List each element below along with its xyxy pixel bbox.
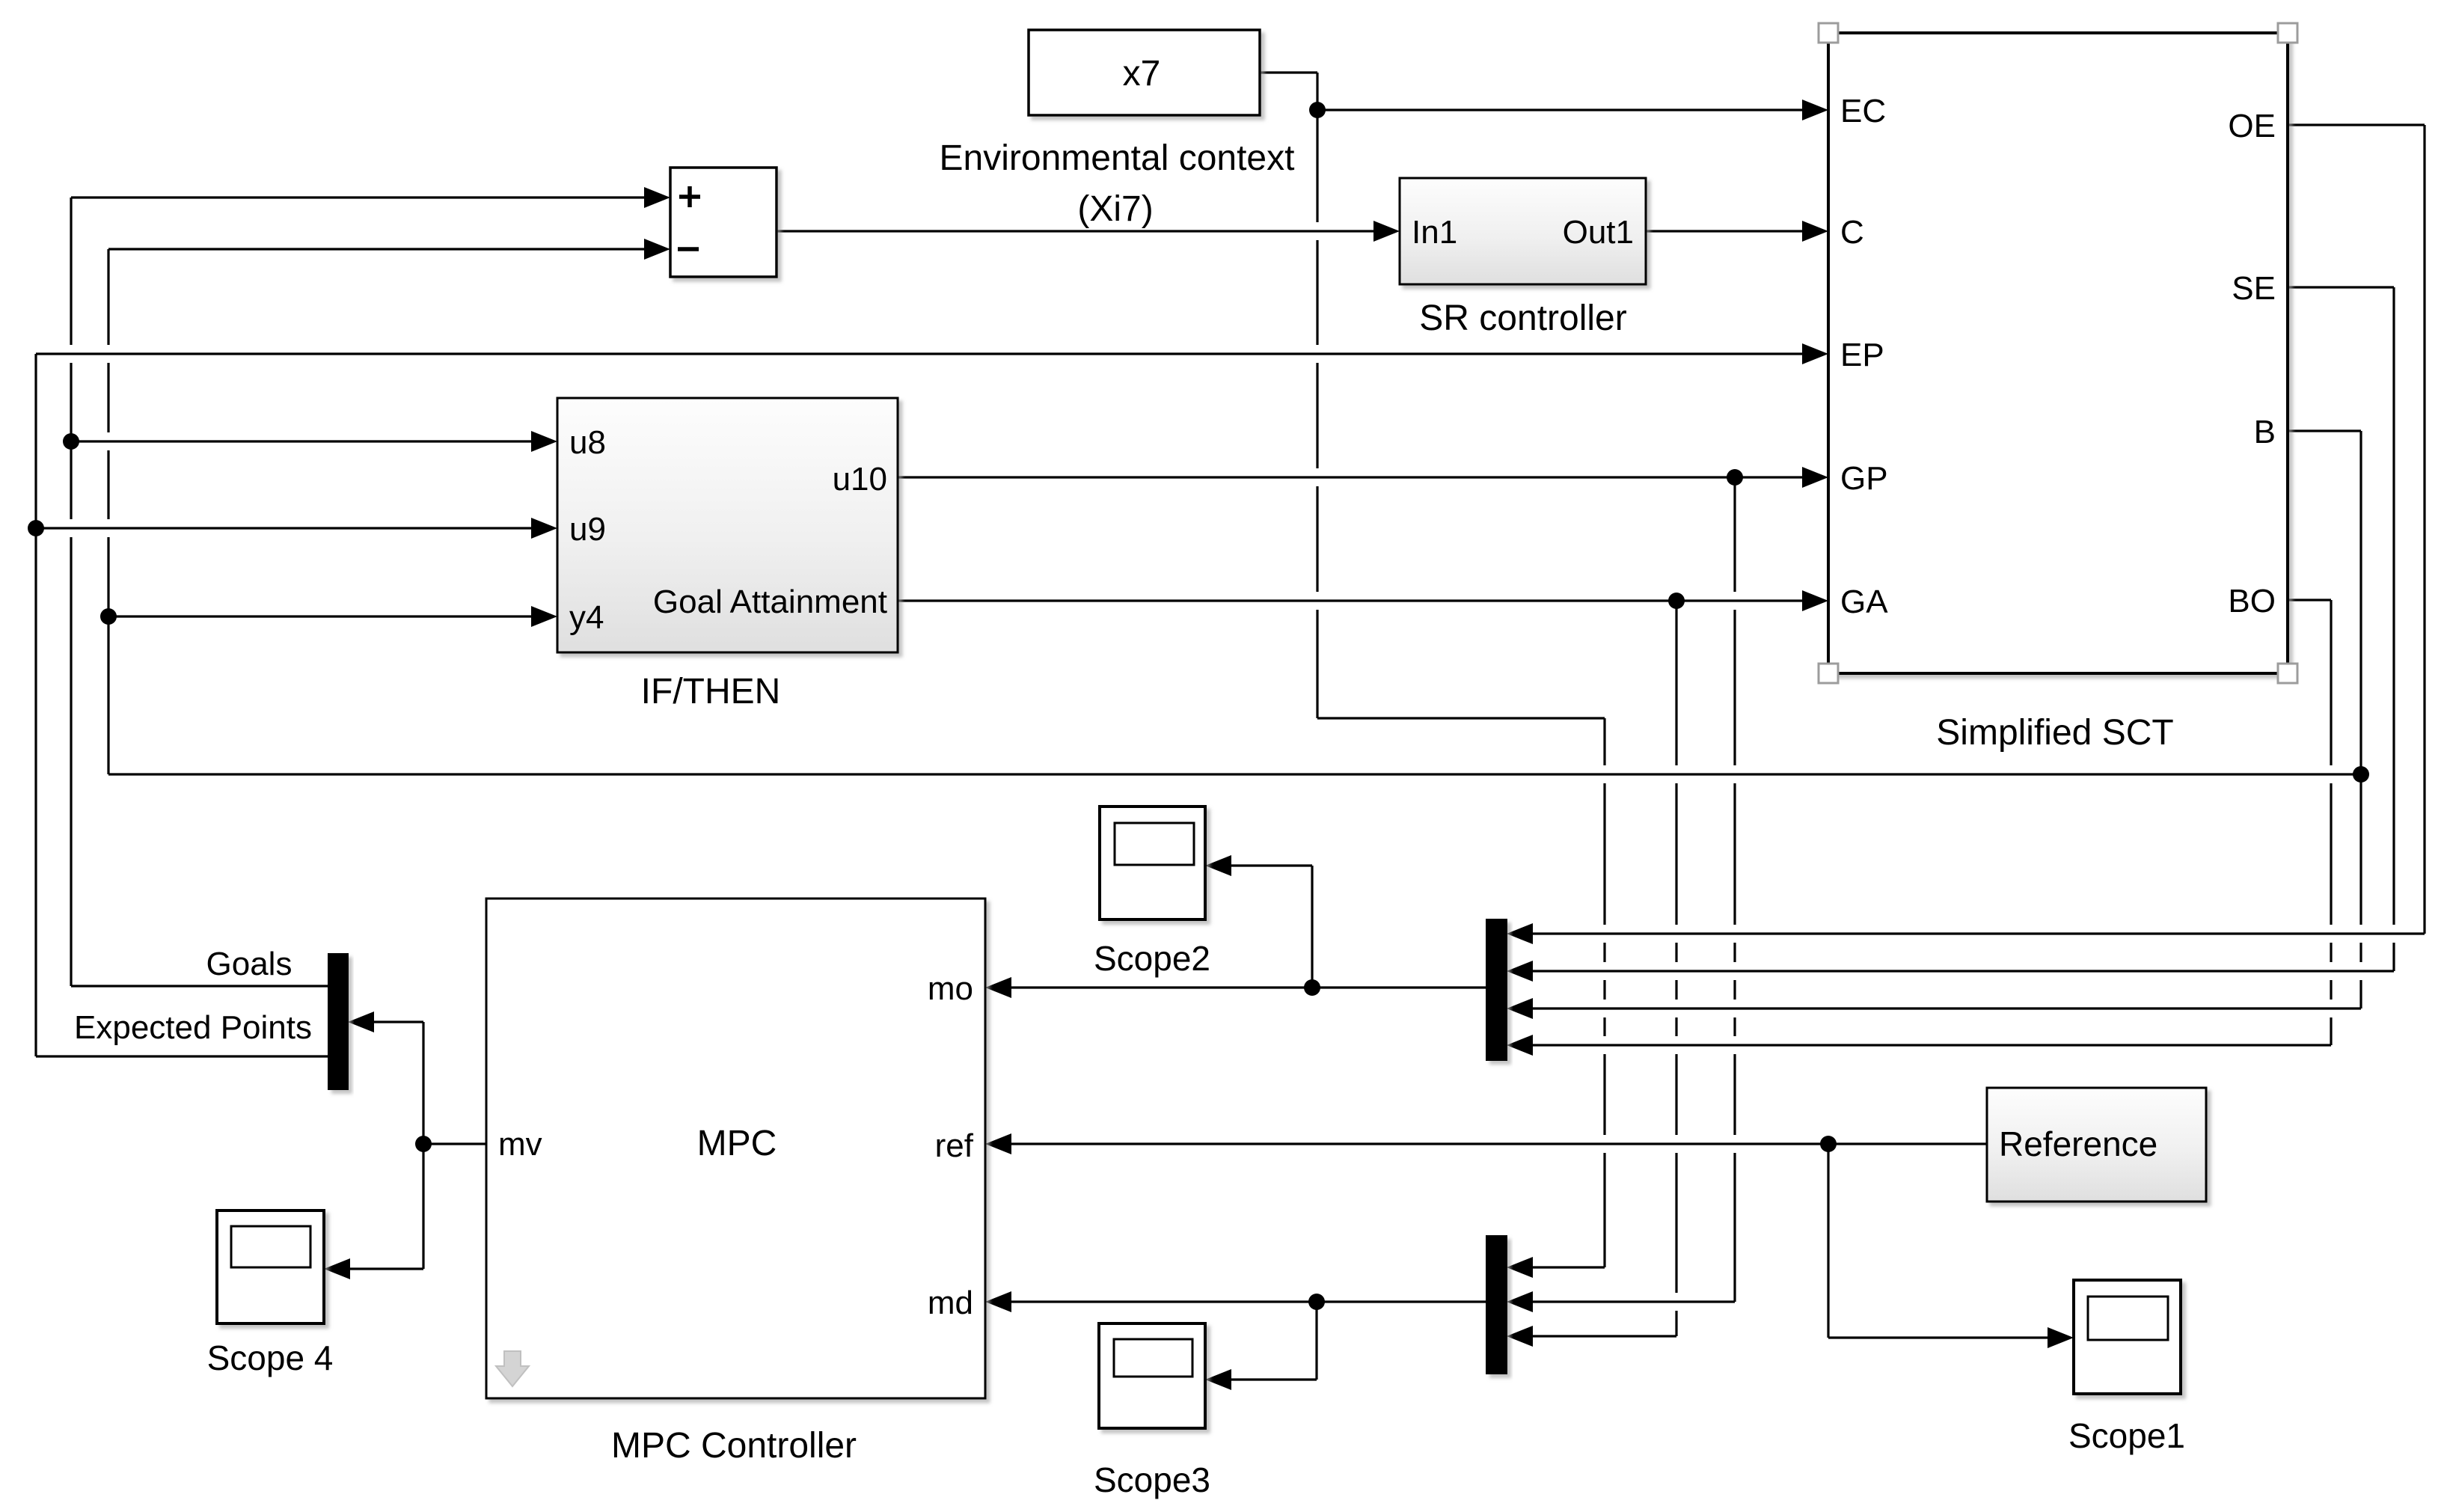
wire EP <box>36 352 1803 355</box>
arrow mux1 in2 <box>1507 961 1533 982</box>
sum plus sign <box>679 186 700 207</box>
wire to Scope1 <box>1828 1336 2048 1338</box>
wire SE vertical <box>2392 287 2395 971</box>
svg-text:BO: BO <box>2228 583 2276 619</box>
wire B vertical <box>2359 431 2362 1008</box>
wire OE vertical <box>2423 125 2425 934</box>
junction ref/Scope1 <box>1820 1136 1837 1152</box>
junction u8 tap <box>63 433 79 450</box>
arrow In1 <box>1373 221 1400 242</box>
svg-text:md: md <box>928 1285 973 1321</box>
block Simplified SCT <box>1828 33 2288 673</box>
wire BO to mux1 <box>1532 1044 2331 1046</box>
arrow mux1 in4 <box>1507 1035 1533 1056</box>
arrow mux2 in2 <box>1507 1291 1533 1312</box>
svg-text:GA: GA <box>1840 584 1888 620</box>
wire Goals <box>71 985 328 987</box>
svg-text:Scope3: Scope3 <box>1094 1460 1210 1499</box>
svg-text:Scope2: Scope2 <box>1094 939 1210 978</box>
arrow mux2 in1 <box>1507 1257 1533 1278</box>
wire mo <box>1011 986 1486 988</box>
wire ExpPoints vertical <box>34 354 37 1056</box>
arrow ref <box>985 1133 1011 1154</box>
arrow sum plus <box>644 187 670 208</box>
selection handle <box>2278 23 2297 43</box>
svg-text:(Xi7): (Xi7) <box>1077 189 1153 229</box>
wire Expected Points <box>36 1055 328 1057</box>
wire BO vertical <box>2330 600 2332 1045</box>
junction mv <box>415 1136 432 1152</box>
selection handle <box>1819 664 1838 683</box>
svg-text:Goals: Goals <box>206 946 293 982</box>
wire EC to mux2 <box>1532 1266 1605 1268</box>
svg-text:Environmental context: Environmental context <box>940 138 1295 178</box>
arrow demux in <box>348 1011 374 1032</box>
selection handle <box>2278 664 2297 683</box>
junction mo/Scope2 <box>1304 979 1320 996</box>
wire sum to In1 <box>777 230 1374 232</box>
arrow u9 <box>531 518 557 539</box>
wire x7/EC vertical <box>1316 73 1318 718</box>
block SR controller <box>1400 178 1646 284</box>
svg-text:Out1: Out1 <box>1563 214 1634 251</box>
junction y4 tap <box>100 608 117 625</box>
svg-text:MPC: MPC <box>697 1124 777 1163</box>
wire B feedback vertical <box>107 249 109 774</box>
arrow GP <box>1802 467 1828 488</box>
svg-text:EC: EC <box>1840 93 1886 129</box>
block Scope3 <box>1099 1323 1205 1428</box>
svg-text:In1: In1 <box>1412 214 1457 251</box>
wire EC <box>1317 108 1803 111</box>
wire Out1 to C <box>1646 230 1803 232</box>
wire OE out <box>2288 123 2425 126</box>
MPC drop-down arrow icon <box>496 1351 529 1386</box>
arrow mo <box>985 977 1011 998</box>
svg-text:OE: OE <box>2228 108 2276 144</box>
wire y4 <box>109 615 532 617</box>
arrow Scope2 in <box>1205 855 1231 876</box>
sum minus sign <box>678 247 699 251</box>
wire goals to sum+ <box>71 196 645 198</box>
wire u8 <box>71 440 532 442</box>
svg-text:ref: ref <box>935 1127 974 1164</box>
arrow Scope3 in <box>1205 1369 1231 1390</box>
mux1 (top right mux) <box>1486 919 1507 1060</box>
wire to Scope4 <box>349 1267 423 1270</box>
junction x7/EC <box>1309 102 1326 118</box>
wire GoalAtt to GA <box>898 599 1803 602</box>
svg-text:B: B <box>2254 414 2276 450</box>
junction GA tap <box>1668 593 1685 609</box>
Scope3 screen <box>1114 1339 1192 1377</box>
arrow mux1 in3 <box>1507 998 1533 1019</box>
block Scope1 <box>2074 1280 2181 1394</box>
svg-text:mv: mv <box>498 1126 542 1163</box>
svg-text:Scope1: Scope1 <box>2068 1416 2185 1455</box>
svg-text:GP: GP <box>1840 460 1888 497</box>
wire to Scope2 <box>1231 864 1312 866</box>
arrow Scope1 in <box>2048 1327 2074 1348</box>
block Sum <box>670 168 777 277</box>
svg-text:Scope 4: Scope 4 <box>207 1338 334 1377</box>
wire ref <box>1011 1142 1987 1145</box>
arrow mux1 in1 <box>1507 923 1533 944</box>
wire GP to mux2 <box>1532 1300 1735 1303</box>
svg-text:C: C <box>1840 214 1864 251</box>
wire GP mux2 vertical <box>1733 477 1736 1302</box>
svg-text:SR controller: SR controller <box>1419 299 1626 338</box>
wire B to mux1 <box>1532 1007 2361 1009</box>
svg-text:x7: x7 <box>1123 54 1161 94</box>
wire GA to mux2 <box>1532 1335 1676 1337</box>
block Reference <box>1987 1088 2206 1202</box>
Scope1 screen <box>2088 1297 2168 1340</box>
mux2 (bottom right mux) <box>1486 1236 1507 1374</box>
wire Scope1 vertical <box>1827 1144 1829 1338</box>
wire BO out <box>2288 599 2331 601</box>
demux Goals/Expected Points <box>328 954 348 1089</box>
wire mv vertical <box>422 1022 424 1269</box>
block x7 (Environmental context source) <box>1029 30 1260 115</box>
junction md/Scope3 <box>1308 1294 1325 1310</box>
wire md <box>1011 1300 1486 1303</box>
Scope2 screen <box>1115 823 1194 865</box>
arrow u8 <box>531 431 557 452</box>
svg-text:u8: u8 <box>569 424 606 461</box>
wire to demux <box>373 1020 423 1023</box>
arrow Scope4 in <box>324 1258 350 1279</box>
svg-text:u10: u10 <box>833 461 887 498</box>
junction GP tap <box>1727 469 1743 486</box>
wire GA mux2 vertical <box>1675 601 1677 1336</box>
svg-text:Simplified SCT: Simplified SCT <box>1936 713 2173 753</box>
block Scope4 <box>217 1210 324 1323</box>
svg-text:y4: y4 <box>569 599 604 636</box>
svg-text:mo: mo <box>928 970 973 1007</box>
svg-text:Expected Points: Expected Points <box>74 1009 312 1046</box>
Scope4 screen <box>231 1226 310 1267</box>
svg-text:MPC Controller: MPC Controller <box>611 1426 857 1466</box>
svg-text:SE: SE <box>2232 270 2276 307</box>
svg-text:IF/THEN: IF/THEN <box>641 672 781 711</box>
wire Scope3 vertical <box>1315 1302 1317 1380</box>
wire B to sum- <box>108 248 645 250</box>
wire u9 <box>36 527 532 529</box>
wire OE to mux1 <box>1532 932 2425 934</box>
svg-text:Reference: Reference <box>1999 1124 2157 1163</box>
selection handle <box>1819 23 1838 43</box>
arrow md <box>985 1291 1011 1312</box>
svg-text:u9: u9 <box>569 511 606 548</box>
wire to Scope3 <box>1231 1378 1317 1380</box>
wire x7 out <box>1260 71 1317 73</box>
wire B out <box>2288 429 2361 432</box>
block MPC Controller <box>486 899 985 1398</box>
wire B feedback <box>108 773 2361 775</box>
block IF/THEN <box>557 398 898 652</box>
arrow GA <box>1802 590 1828 611</box>
arrow y4 <box>531 606 557 627</box>
svg-text:Goal Attainment: Goal Attainment <box>653 584 887 620</box>
wire Goals vertical <box>70 198 72 986</box>
block Scope2 <box>1100 806 1205 919</box>
wire mv <box>423 1142 486 1145</box>
junction u9 tap <box>28 520 44 536</box>
junction B feedback <box>2353 766 2369 783</box>
wire Scope2 vertical <box>1311 866 1313 988</box>
svg-text:EP: EP <box>1840 337 1884 373</box>
arrow EP <box>1802 343 1828 364</box>
arrow mux2 in3 <box>1507 1326 1533 1347</box>
arrow sum minus <box>644 239 670 260</box>
wire SE to mux1 <box>1532 970 2394 972</box>
wire SE out <box>2288 286 2394 288</box>
wire EC mux2 vertical <box>1603 718 1605 1267</box>
wire u10 to GP <box>898 476 1803 478</box>
arrow C <box>1802 221 1828 242</box>
arrow EC <box>1802 100 1828 120</box>
wire EC down leg <box>1317 717 1605 719</box>
